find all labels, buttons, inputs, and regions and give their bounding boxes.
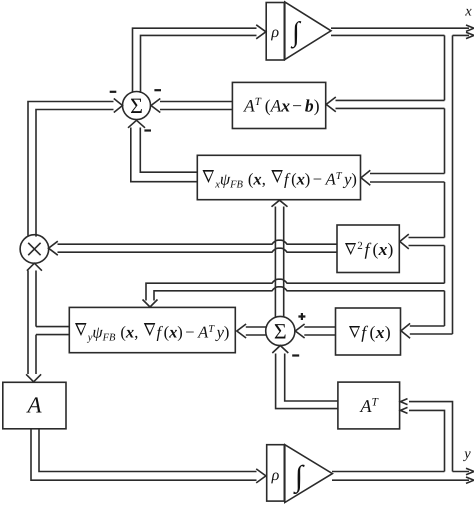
wire x feedback column: [445, 35, 453, 334]
svg-text:A: A: [270, 96, 282, 116]
multiplier X1: [20, 235, 49, 264]
block B7 AT: [338, 382, 400, 429]
wire branch to B1: [336, 100, 445, 108]
svg-text:ρ: ρ: [270, 24, 279, 41]
wire B1 output to S1: [160, 102, 232, 110]
svg-text:): ): [314, 96, 320, 116]
wire U1 output to x with arrows: [331, 28, 469, 35]
summer S1 (top sigma): [123, 92, 151, 120]
label minus at S1 left input: [110, 91, 117, 93]
arrow into B5 right: [237, 324, 246, 338]
arrow into B3: [400, 234, 409, 249]
wire S1 output up then right to rho1: [133, 28, 257, 93]
text B4: [349, 326, 360, 338]
svg-text:ρ: ρ: [271, 467, 280, 484]
arrow x out line2: [466, 32, 474, 38]
arrow into rho2: [256, 469, 266, 483]
svg-text:T: T: [208, 324, 215, 335]
integrator U2 triangle (bottom): [285, 445, 333, 503]
svg-text:(: (: [373, 239, 379, 259]
svg-text:f: f: [365, 239, 372, 259]
label minus at S1 right input: [154, 89, 161, 91]
svg-text:x: x: [375, 322, 385, 342]
svg-text:Σ: Σ: [274, 319, 287, 344]
arrow into B2 right: [361, 170, 370, 185]
svg-text:): ): [388, 239, 394, 259]
block B3 hessian f(x): [337, 225, 399, 273]
svg-text:x: x: [378, 239, 388, 259]
svg-text:A: A: [243, 96, 255, 116]
svg-text:T: T: [372, 397, 380, 409]
arrow into B2 bottom: [272, 200, 288, 207]
arrow into B7 line1: [400, 399, 407, 405]
arrow up into X1 bottom: [27, 263, 42, 271]
arrow into B7 line2: [400, 407, 407, 413]
wire left column between X1 and B6: [28, 271, 36, 375]
arrow y out line1: [466, 468, 474, 474]
text B2: [203, 170, 215, 183]
svg-text:∫: ∫: [290, 17, 302, 49]
svg-text:): ): [224, 323, 230, 342]
svg-text:f: f: [284, 170, 291, 189]
arrow into B4: [401, 323, 410, 338]
svg-text:x: x: [296, 170, 305, 189]
wire U2 output to y with arrows: [332, 472, 469, 481]
label minus at S1 bottom input: [144, 129, 151, 131]
svg-text:): ): [177, 323, 183, 342]
wire long branch to B5 top with hop: [146, 279, 445, 300]
arrow into B5 top: [143, 300, 158, 308]
wire S2 output up to B2 bottom: [275, 207, 283, 317]
svg-text:x: x: [125, 323, 134, 342]
svg-text:A: A: [25, 393, 42, 418]
arrow into rho1: [256, 25, 266, 39]
wire X1 output up then right to S1 left: [28, 102, 114, 237]
arrow into X1 right: [49, 241, 58, 255]
gain block rho2 (bottom): [267, 445, 285, 501]
svg-text:x: x: [252, 170, 261, 189]
arrow into B1: [326, 97, 336, 112]
svg-text:FB: FB: [229, 180, 243, 191]
block B5 grad_y psi_FB: [69, 307, 235, 352]
svg-text:,: ,: [262, 170, 266, 189]
svg-text:,: ,: [134, 323, 138, 342]
svg-text:−: −: [185, 323, 194, 342]
svg-text:Σ: Σ: [130, 93, 143, 118]
label minus at S2 bottom input: [292, 354, 299, 356]
svg-text:−: −: [292, 96, 302, 116]
integrator U1 triangle (top): [285, 2, 331, 60]
svg-text:FB: FB: [102, 333, 116, 344]
svg-text:x: x: [168, 323, 177, 342]
text B5: [75, 323, 87, 336]
svg-text:2: 2: [357, 240, 363, 252]
wire B7 output left then up to S2 bottom: [276, 354, 338, 409]
arrow into S1 left: [114, 99, 123, 113]
wire B2 output left then up to S1 bottom: [131, 128, 198, 182]
wire y feedback column up to B7: [409, 402, 453, 472]
svg-text:∫: ∫: [293, 460, 305, 495]
svg-text:T: T: [255, 96, 262, 108]
svg-text:b: b: [305, 96, 314, 116]
wire S2 output left to B5: [246, 327, 266, 335]
svg-text:x: x: [280, 96, 290, 116]
svg-text:y: y: [462, 446, 471, 462]
wire B6 output down then right to rho2: [31, 429, 257, 480]
svg-text:f: f: [361, 322, 368, 342]
svg-text:(: (: [370, 322, 376, 342]
label plus at S2 right input: [298, 313, 305, 320]
wire branch to B2: [370, 174, 445, 183]
text B3: [345, 243, 356, 255]
svg-text:f: f: [157, 323, 164, 342]
summer S2 (bottom sigma): [266, 316, 295, 345]
block B1 AT(Ax-b): [232, 82, 325, 128]
arrow y out line2: [466, 477, 474, 483]
arrow into S1 right: [151, 99, 160, 113]
arrow into S1 bottom: [128, 120, 145, 128]
wire B3 output to X1 with hop: [58, 240, 338, 252]
svg-text:T: T: [336, 171, 343, 182]
wire B5 output left to junction: [36, 327, 69, 335]
block B4 grad f(x): [336, 308, 401, 355]
gain block rho1 (top): [266, 3, 284, 61]
block B6 A: [3, 382, 66, 429]
svg-text:): ): [385, 322, 391, 342]
arrow into S2 right: [295, 324, 304, 338]
block B2 grad_x psi_FB: [197, 155, 360, 199]
arrow down into B6 top: [26, 374, 41, 382]
arrow into S2 bottom: [272, 346, 288, 354]
wire x column end corner into B4: [410, 326, 453, 334]
arrow x out line1: [466, 25, 474, 31]
svg-text:): ): [351, 170, 357, 189]
wire B4 output to S2: [304, 327, 335, 335]
svg-text:x: x: [464, 4, 472, 20]
svg-text:): ): [305, 170, 311, 189]
svg-text:−: −: [313, 170, 322, 189]
wire branch to B3: [409, 238, 445, 246]
